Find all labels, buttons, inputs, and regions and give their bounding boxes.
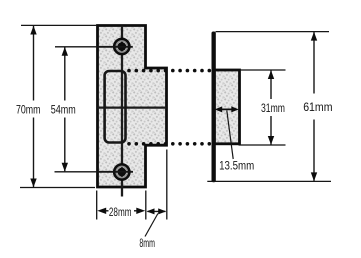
svg-text:54mm: 54mm	[51, 103, 76, 117]
svg-text:8mm: 8mm	[139, 236, 155, 250]
svg-text:70mm: 70mm	[16, 103, 41, 117]
svg-text:61mm: 61mm	[303, 100, 332, 114]
svg-text:13.5mm: 13.5mm	[219, 159, 254, 173]
svg-text:28mm: 28mm	[109, 205, 132, 219]
svg-text:31mm: 31mm	[261, 101, 285, 115]
